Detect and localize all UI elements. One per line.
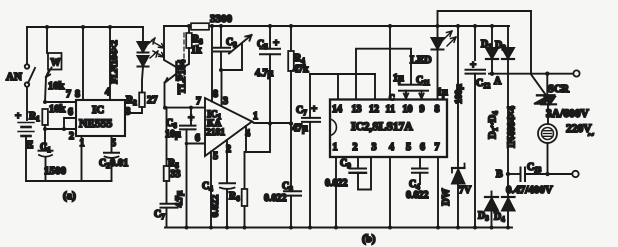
svg-text:+: + xyxy=(273,37,279,49)
svg-text:1μ: 1μ xyxy=(393,73,404,84)
svg-text:(a): (a) xyxy=(63,190,76,202)
svg-text:100μ: 100μ xyxy=(455,84,465,104)
svg-text:10: 10 xyxy=(403,104,413,115)
svg-text:6: 6 xyxy=(68,107,73,118)
wire switch to battery xyxy=(26,87,28,120)
resistor R3 1k xyxy=(179,26,204,70)
resistor R6 xyxy=(229,189,247,228)
opto coupling arrows xyxy=(153,42,164,57)
wire node to NE555 pin 2 xyxy=(45,128,76,130)
zener diode DW 7V xyxy=(441,26,472,228)
svg-text:NE555: NE555 xyxy=(79,118,112,130)
wire pin 5 to ground rail xyxy=(210,152,212,228)
wire pin 7 to ground xyxy=(437,157,439,228)
capacitor C2 0.01 xyxy=(99,153,128,170)
svg-text:7: 7 xyxy=(66,89,71,100)
node B xyxy=(506,172,510,176)
wire pin 4 down xyxy=(245,126,247,189)
svg-text:A: A xyxy=(494,76,502,87)
svg-text:7V: 7V xyxy=(459,185,472,196)
svg-text:+: + xyxy=(15,110,21,122)
svg-text:2181: 2181 xyxy=(206,128,225,138)
svg-text:13: 13 xyxy=(352,104,362,115)
wire bottom rail of section (b) xyxy=(165,227,512,229)
svg-text:8: 8 xyxy=(213,89,218,100)
node dot output/C5 xyxy=(268,122,272,126)
svg-text:33: 33 xyxy=(171,169,181,180)
node dot pin6 jog xyxy=(62,127,66,131)
IC NE555 xyxy=(66,87,125,136)
node dot emitter xyxy=(163,106,167,110)
SCR thyristor xyxy=(534,74,590,124)
wire C7 to pins 14 and 12 xyxy=(310,73,375,75)
wire C3 node to pin 3 xyxy=(221,70,223,106)
resistor R4 47k xyxy=(288,26,309,124)
svg-text:5: 5 xyxy=(111,138,116,149)
svg-text:11: 11 xyxy=(386,104,395,115)
svg-text:1k: 1k xyxy=(191,45,202,56)
svg-text:+: + xyxy=(311,103,317,115)
capacitor C4 0.022 xyxy=(202,140,235,228)
svg-text:10k: 10k xyxy=(48,81,65,92)
svg-text:2: 2 xyxy=(69,131,74,142)
wire feedback output down to pin4 column xyxy=(245,124,271,153)
wire pin 1 to ground xyxy=(335,157,337,228)
battery E xyxy=(15,110,34,151)
node A and gate wire xyxy=(489,72,573,95)
node junction dots on (a) rail xyxy=(45,25,112,29)
svg-text:+: + xyxy=(188,112,194,124)
svg-text:0.01: 0.01 xyxy=(110,158,128,169)
capacitor C13 0.47/400V xyxy=(506,162,572,196)
wire bottom rail of (a) xyxy=(26,180,112,182)
wire left drop to switch xyxy=(26,27,28,64)
svg-text:LED: LED xyxy=(410,55,432,66)
phototransistor TLP104 bar xyxy=(175,62,178,80)
svg-text:1μ: 1μ xyxy=(437,87,448,98)
svg-text:3300: 3300 xyxy=(210,13,233,25)
wire C1 top xyxy=(44,129,46,150)
svg-text:7: 7 xyxy=(196,96,201,107)
capacitor C6 10u coupling xyxy=(165,106,205,228)
dashed package boundary xyxy=(183,33,185,76)
resistor 3300 on rail xyxy=(191,13,233,30)
svg-text:0.022: 0.022 xyxy=(264,193,287,204)
wire rail to pin 8 xyxy=(82,27,84,100)
wire jog to NE555 pin 6 xyxy=(64,118,76,129)
wire LED2 to R2 xyxy=(142,67,143,93)
IC2 SLS17A box xyxy=(330,100,447,158)
wire rail to pin 11 xyxy=(389,26,391,100)
terminal bottom output xyxy=(572,171,578,177)
capacitor C7 47u xyxy=(292,74,320,226)
resistor R1 10k xyxy=(29,104,66,129)
wire pin 1 to bottom rail xyxy=(81,136,83,181)
potentiometer W 10k xyxy=(46,53,65,92)
wire top rail of section (b) xyxy=(164,25,509,27)
wire node to NE555 pin 7 xyxy=(45,101,76,103)
svg-text:4.7μ: 4.7μ xyxy=(174,191,184,207)
capacitor 0.022 under pin 5 xyxy=(406,157,429,201)
svg-text:10k: 10k xyxy=(49,104,66,115)
svg-text:47k: 47k xyxy=(293,64,309,75)
wire pin 5 to C2 xyxy=(111,136,113,152)
svg-text:B: B xyxy=(496,169,503,180)
svg-text:~: ~ xyxy=(588,129,594,141)
svg-text:IC: IC xyxy=(92,104,104,116)
wire C2 bottom xyxy=(111,158,113,181)
svg-text:6: 6 xyxy=(420,142,425,153)
wire pin 4 to ground xyxy=(389,157,391,228)
LED chain FLN104 x2 xyxy=(138,38,159,67)
wire battery to bottom rail xyxy=(25,137,27,181)
svg-text:5: 5 xyxy=(406,142,411,153)
svg-text:8: 8 xyxy=(75,89,80,100)
svg-text:14: 14 xyxy=(332,104,342,115)
lamp load 220V xyxy=(538,123,594,176)
diode D1 xyxy=(481,26,498,74)
svg-text:D1~D4: D1~D4 xyxy=(488,111,500,139)
diode D2 xyxy=(495,26,514,174)
svg-text:12: 12 xyxy=(369,104,379,115)
svg-text:FLN104×2: FLN104×2 xyxy=(110,40,120,84)
svg-text:9: 9 xyxy=(420,104,425,115)
wire C1 bottom xyxy=(45,157,47,181)
svg-text:1: 1 xyxy=(253,111,258,122)
wire rail to pin 8 xyxy=(211,26,213,102)
svg-text:1: 1 xyxy=(333,142,338,153)
capacitor C12 100u xyxy=(455,26,491,228)
svg-text:(b): (b) xyxy=(362,233,376,245)
svg-text:27: 27 xyxy=(147,95,158,106)
wire rail to LED1 xyxy=(142,27,144,42)
wire top rail of section (a) xyxy=(27,26,143,28)
svg-text:E: E xyxy=(26,139,33,151)
svg-text:1500: 1500 xyxy=(44,165,67,177)
node dot SCR anode tap xyxy=(545,72,549,76)
capacitor C11 1u xyxy=(415,75,449,99)
LED indicator xyxy=(410,26,456,100)
capacitor C1 1500 xyxy=(39,142,67,177)
wire op-amp output xyxy=(252,122,291,124)
svg-text:3: 3 xyxy=(126,107,131,118)
svg-text:47μ: 47μ xyxy=(292,123,308,134)
capacitor C9 0.022 under pin 2 xyxy=(325,157,371,190)
wire pin 13 loop to 1u caps xyxy=(356,49,411,100)
svg-text:0.47/400V: 0.47/400V xyxy=(506,184,553,196)
wire upper bypass rail to SCR anode xyxy=(438,11,532,74)
trimmer capacitor C3 xyxy=(214,26,252,72)
potentiometer W stem wire xyxy=(46,27,48,53)
wire wiper down to node xyxy=(45,77,46,102)
capacitor C10 1u xyxy=(389,73,413,102)
svg-text:6: 6 xyxy=(195,133,200,144)
svg-text:3A/600V: 3A/600V xyxy=(546,108,590,120)
svg-text:SCR: SCR xyxy=(548,84,569,95)
node dots top rail xyxy=(187,24,494,28)
svg-text:IN4004×4: IN4004×4 xyxy=(507,106,518,148)
resistor R2 27 xyxy=(126,93,158,108)
svg-text:0.022: 0.022 xyxy=(325,178,348,189)
switch AN xyxy=(6,64,35,86)
svg-text:5: 5 xyxy=(213,151,218,162)
svg-text:7: 7 xyxy=(435,142,440,153)
wire collector riser xyxy=(164,26,176,67)
wire emitter with arrow xyxy=(165,74,176,83)
capacitor C7 4.7u bottom left xyxy=(154,191,184,228)
node dot pin7 junction xyxy=(43,100,47,104)
svg-text:AN: AN xyxy=(6,71,22,83)
diode D4 xyxy=(494,174,515,228)
svg-text:0.022: 0.022 xyxy=(406,190,429,201)
capacitor C8 0.022 xyxy=(264,124,301,228)
svg-text:4: 4 xyxy=(389,142,394,153)
op-amp IC1 KA2181 xyxy=(205,89,258,162)
svg-text:3: 3 xyxy=(223,96,228,107)
diode D3 xyxy=(478,192,498,228)
node dot output/R4 xyxy=(289,121,293,125)
terminal top output xyxy=(573,70,579,76)
capacitor C5 4.7u xyxy=(255,26,280,124)
svg-text:DW: DW xyxy=(441,188,452,205)
svg-text:C: C xyxy=(389,93,395,102)
resistor R5 33 xyxy=(164,108,181,203)
svg-text:IC2,SLS17A: IC2,SLS17A xyxy=(351,121,413,133)
svg-text:3: 3 xyxy=(372,142,377,153)
wire rail to pin 4 xyxy=(109,27,111,100)
svg-text:2: 2 xyxy=(353,142,358,153)
wire emitter to op-amp pin 7 xyxy=(165,107,205,109)
svg-text:0.022: 0.022 xyxy=(210,195,221,218)
wire R2 to pin 3 xyxy=(125,107,142,113)
node dot R1 bottom xyxy=(43,127,47,131)
svg-text:8: 8 xyxy=(435,104,440,115)
node dots bottom rail xyxy=(185,226,511,230)
